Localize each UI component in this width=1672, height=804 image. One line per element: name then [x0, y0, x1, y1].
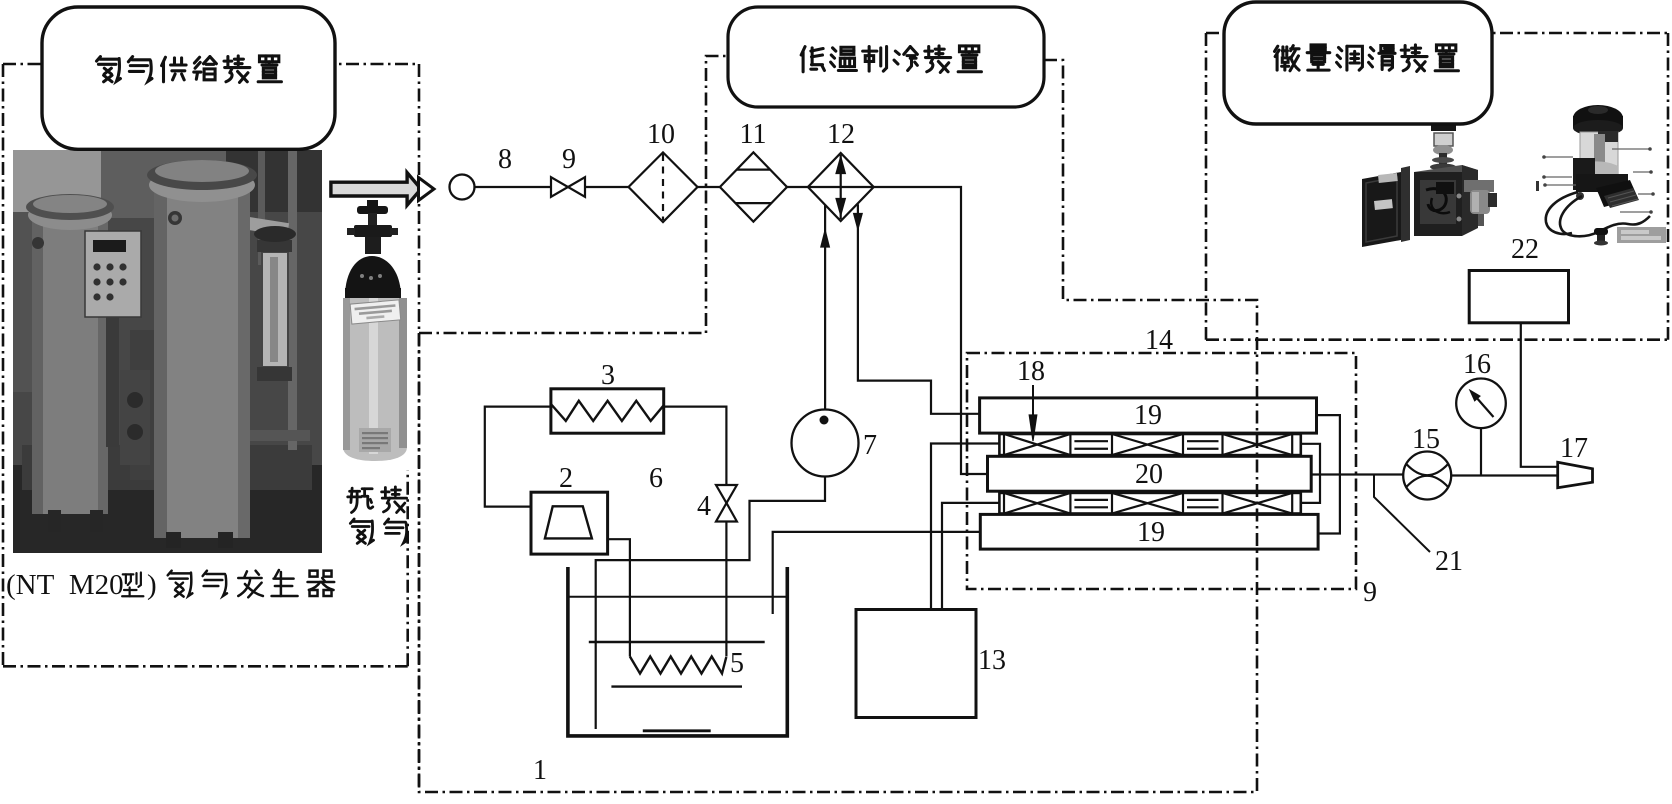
svg-text:): )	[147, 569, 157, 601]
wire: pump suction from bath	[596, 477, 825, 730]
label 16	[1463, 349, 1491, 380]
leader line 21	[1374, 476, 1430, 553]
svg-text:2: 2	[559, 463, 573, 494]
wire: top bearing sensors to box13	[931, 444, 999, 610]
cooling jacket 19 (bottom)	[980, 514, 1318, 549]
svg-text:(NT M20: (NT M20	[6, 569, 124, 601]
arrow: flow up on riser	[821, 230, 830, 247]
text: dan-qi (nitrogen)	[350, 519, 407, 543]
svg-text:1: 1	[533, 755, 547, 786]
pulse lubricator box 22	[1469, 271, 1568, 323]
oil feed from box 22	[1521, 323, 1558, 467]
title box: MQL unit	[1224, 2, 1492, 124]
svg-text:19: 19	[1134, 400, 1162, 431]
title text: wei-liang-run-hua-zhuang-zhi	[1275, 45, 1459, 71]
svg-text:11: 11	[740, 119, 767, 150]
cooling bath tank	[568, 567, 787, 736]
wire: filter10 to filter11	[698, 186, 720, 188]
node 8 (outlet port)	[450, 175, 475, 200]
title box: nitrogen supply unit	[42, 7, 335, 149]
wire: bearing rows right-side connector	[1301, 444, 1320, 503]
block arrow: nitrogen feed	[331, 173, 434, 206]
svg-text:7: 7	[863, 430, 877, 461]
nozzle 17	[1558, 462, 1593, 487]
label 20	[1135, 459, 1163, 490]
svg-text:17: 17	[1560, 433, 1588, 464]
svg-text:10: 10	[647, 119, 675, 150]
title text: dan-qi-gong-gei-zhuang-zhi	[97, 56, 282, 82]
photo: nitrogen generator (NT M20)	[13, 150, 322, 553]
heat exchanger 12	[808, 153, 874, 221]
wire: spindle outlet pipe	[1311, 473, 1403, 475]
photo: bottled nitrogen cylinder	[336, 196, 418, 466]
caption: (NT M20) generator	[6, 569, 334, 601]
label 17	[1560, 433, 1588, 464]
bearing row (top) with spacers	[999, 434, 1300, 455]
wire: condenser to compressor loop	[485, 407, 551, 507]
filter 11	[720, 152, 787, 221]
evaporator coil 5	[630, 657, 726, 674]
label 3	[601, 360, 615, 391]
wire: circle8 to valve9	[475, 186, 552, 188]
controller box 13	[856, 610, 976, 718]
pump 7	[792, 410, 859, 477]
wire: pump to hx12 supply riser	[824, 205, 826, 410]
wire: hx12 return to top jacket 19	[858, 204, 980, 413]
label 4	[697, 491, 711, 522]
bearing row (bottom) with spacers	[999, 493, 1300, 514]
label 6	[649, 463, 663, 494]
photo: grease pump kit	[1536, 105, 1666, 246]
svg-text:3: 3	[601, 360, 615, 391]
label 14	[1145, 325, 1173, 356]
label 9 (spindle box)	[1363, 577, 1377, 608]
svg-text:18: 18	[1017, 356, 1045, 387]
svg-text:9: 9	[562, 144, 576, 175]
svg-text:9: 9	[1363, 577, 1377, 608]
label 2	[559, 463, 573, 494]
boundary: spindle housing box 14	[967, 353, 1356, 589]
arrow 18 pointer	[1029, 385, 1037, 441]
label 19 bottom	[1137, 517, 1165, 548]
wire: condenser to expansion valve	[664, 407, 727, 485]
wire: jacket 19 right-side connector	[1317, 415, 1340, 533]
cooling jacket 19 (top)	[980, 398, 1317, 433]
bath level mark lower	[643, 729, 711, 732]
spindle shaft 20	[988, 456, 1312, 491]
label 9	[562, 144, 576, 175]
arrow: flow down on return line	[854, 214, 863, 230]
wire: valve4 to evaporator coil	[725, 522, 727, 657]
svg-text:19: 19	[1137, 517, 1165, 548]
label 22	[1511, 234, 1539, 265]
svg-text:8: 8	[498, 144, 512, 175]
wire: coil return to compressor	[608, 539, 630, 656]
boundary: machine area left edge	[418, 64, 421, 792]
wire: filter11 to hx12	[787, 186, 808, 188]
wire: bottom bearing sensors to box13	[942, 503, 999, 610]
svg-text:20: 20	[1135, 459, 1163, 490]
label 1	[533, 755, 547, 786]
svg-text:21: 21	[1435, 546, 1463, 577]
label 19 top	[1134, 400, 1162, 431]
label 5	[730, 648, 744, 679]
filter 10	[629, 152, 698, 222]
condenser 3	[551, 389, 664, 433]
bath level mark upper	[589, 641, 765, 643]
svg-text:4: 4	[697, 491, 711, 522]
expansion valve 4	[716, 485, 737, 522]
title box: cryogenic cooling unit	[728, 7, 1044, 107]
wire: hx12 right to spindle supply	[874, 187, 988, 474]
label 10	[647, 119, 675, 150]
svg-text:13: 13	[978, 645, 1006, 676]
svg-text:6: 6	[649, 463, 663, 494]
svg-text:14: 14	[1145, 325, 1173, 356]
wire: valve9 to filter10	[585, 186, 629, 188]
boundary: machine area box 1 / refrigeration unit	[419, 56, 1257, 792]
photo: MQL lubrication unit box	[1362, 124, 1497, 247]
label 11	[740, 119, 767, 150]
pressure gauge 16	[1456, 379, 1506, 476]
label 8	[498, 144, 512, 175]
title text: di-wen-zhi-leng-zhuang-zhi	[801, 46, 981, 72]
bath level mark middle	[611, 685, 742, 687]
flow meter 15	[1403, 452, 1451, 500]
label 12	[827, 119, 855, 150]
label 18	[1017, 356, 1045, 387]
wire: bottom jacket 19 to bath return	[773, 532, 981, 614]
boundary: MQL unit (dash-dot box)	[1206, 33, 1668, 340]
svg-text:15: 15	[1412, 424, 1440, 455]
label 15	[1412, 424, 1440, 455]
wire: flow meter to nozzle	[1451, 474, 1558, 476]
svg-text:22: 22	[1511, 234, 1539, 265]
svg-text:12: 12	[827, 119, 855, 150]
boundary: nitrogen supply unit (dash-dot box)	[3, 64, 419, 666]
valve 9	[551, 177, 585, 197]
label 13	[978, 645, 1006, 676]
label 21	[1435, 546, 1463, 577]
text: ping-zhuang (bottled)	[348, 487, 407, 513]
svg-text:16: 16	[1463, 349, 1491, 380]
compressor 2	[531, 492, 608, 554]
svg-text:5: 5	[730, 648, 744, 679]
bath liquid level	[568, 596, 787, 598]
label 7	[863, 430, 877, 461]
